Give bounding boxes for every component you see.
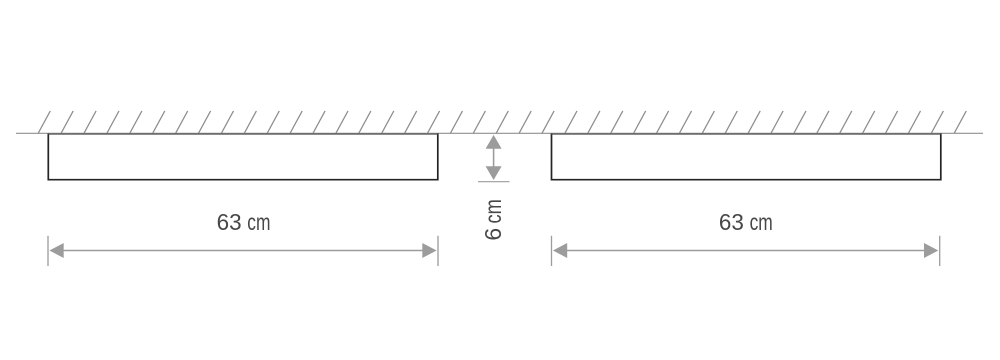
svg-text:63: 63 bbox=[719, 209, 744, 235]
svg-text:6: 6 bbox=[480, 228, 506, 241]
svg-text:63: 63 bbox=[217, 209, 242, 235]
svg-text:cm: cm bbox=[480, 199, 506, 223]
svg-text:cm: cm bbox=[750, 209, 773, 235]
svg-text:cm: cm bbox=[247, 209, 270, 235]
